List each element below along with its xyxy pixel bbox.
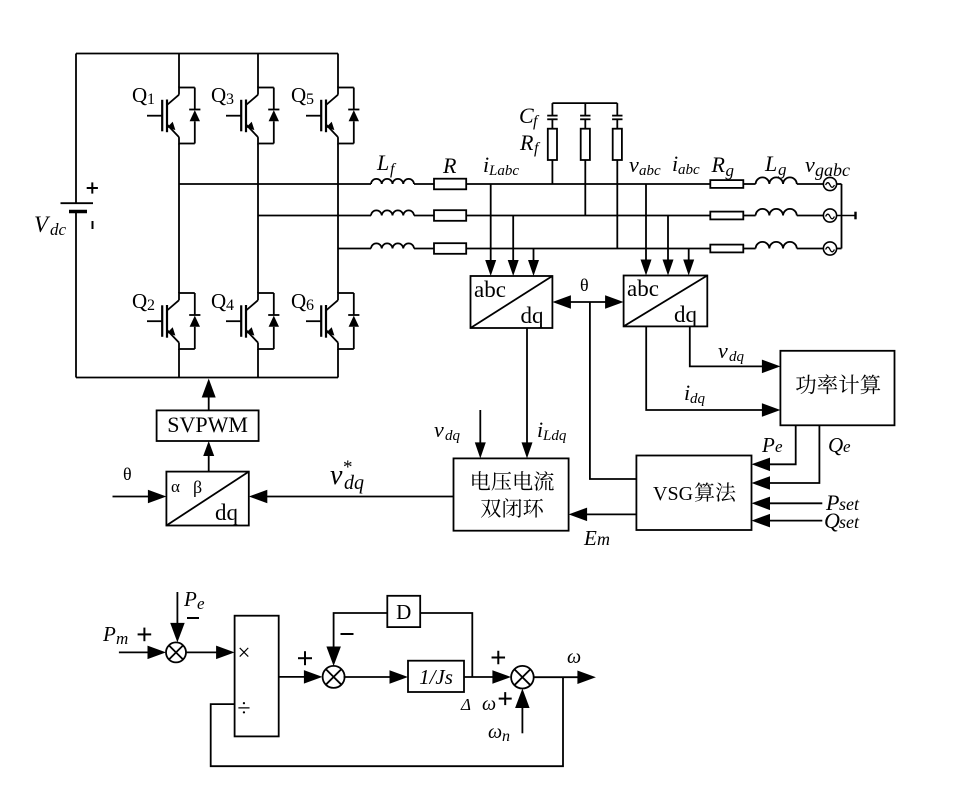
wire S1 to divider: [186, 646, 235, 660]
svg-text:gabc: gabc: [815, 160, 850, 180]
svg-text:R: R: [442, 153, 457, 178]
svg-text:abc: abc: [639, 163, 661, 179]
wire iLdq: [522, 328, 533, 458]
label plus S2: [298, 651, 312, 665]
wire top DC rail: [76, 53, 338, 55]
svg-text:Q: Q: [828, 433, 843, 457]
wire inverter leg 2: [257, 54, 259, 378]
block multiply divide: [235, 616, 279, 737]
svg-text:Q: Q: [291, 289, 306, 313]
label Pset: [825, 490, 860, 515]
block alpha-beta/dq transform U3: [166, 472, 248, 526]
inductor Lg phase B: [756, 209, 797, 216]
svg-text:3: 3: [226, 91, 234, 108]
wire bottom DC rail: [76, 377, 338, 379]
transistor Q3: [226, 87, 279, 145]
svg-text:Δ: Δ: [460, 695, 471, 714]
svg-text:2: 2: [147, 297, 155, 314]
label vdq ref: [330, 457, 364, 494]
wire S2 to 1/Js: [344, 670, 408, 684]
label Q1: [132, 83, 155, 108]
svg-text:n: n: [502, 728, 510, 745]
battery Vdc: [61, 182, 98, 229]
label delta omega plus: [460, 692, 512, 715]
resistor Rg phase C: [710, 245, 743, 253]
inductor Lg phase A: [756, 177, 797, 184]
svg-text:P: P: [761, 433, 775, 457]
wire Qset: [752, 514, 823, 528]
svg-text:Ldq: Ldq: [542, 428, 567, 444]
label R: [442, 153, 457, 178]
svg-text:e: e: [197, 594, 205, 613]
wire phase A: [179, 183, 710, 185]
wire v/i tap b: [663, 216, 674, 276]
wire theta input: [113, 490, 167, 503]
svg-text:R: R: [519, 130, 534, 155]
resistor Rf phase B: [581, 129, 590, 160]
wire Cf top bus: [552, 102, 617, 104]
svg-text:v: v: [629, 152, 639, 177]
svg-text:E: E: [583, 526, 597, 550]
label theta input: [123, 464, 132, 484]
resistor Rf phase C: [613, 129, 622, 160]
svg-text:m: m: [116, 629, 128, 648]
svg-text:ω: ω: [567, 646, 581, 668]
label Qe: [828, 433, 851, 457]
block D: [387, 596, 420, 627]
svg-text:g: g: [726, 161, 735, 180]
resistor Rf phase A: [548, 129, 557, 160]
wire iL tap c: [528, 249, 539, 277]
label plus Pm: [138, 628, 152, 642]
svg-text:4: 4: [226, 297, 234, 314]
transistor Q4: [226, 292, 279, 350]
label omega_n: [488, 721, 510, 745]
svg-text:Q: Q: [824, 508, 840, 533]
svg-text:C: C: [519, 103, 534, 128]
label Q5: [291, 83, 314, 108]
svg-text:D: D: [396, 600, 411, 624]
label omega: [567, 646, 581, 668]
label iabc: [672, 151, 700, 178]
label Lf: [376, 150, 397, 178]
svg-text:Q: Q: [132, 83, 147, 107]
wire Pe input: [170, 592, 185, 642]
svg-text:×: ×: [238, 640, 251, 665]
block abc/dq current transform U1: [471, 276, 553, 328]
resistor Rg phase A: [710, 180, 743, 188]
wire grid neutral bus: [837, 184, 842, 249]
svg-text:abc: abc: [474, 277, 506, 302]
label iLdq: [537, 417, 567, 444]
svg-text:dq: dq: [674, 302, 698, 327]
transistor Q2: [147, 292, 200, 350]
wire theta link: [552, 295, 623, 309]
wire Em: [569, 508, 637, 521]
AC source vg phase A: [823, 177, 836, 190]
label plus S3: [492, 651, 506, 665]
svg-text:SVPWM: SVPWM: [167, 412, 248, 437]
svg-text:α: α: [171, 477, 180, 496]
capacitor Cf phase B: [580, 103, 590, 129]
svg-text:ω: ω: [488, 721, 502, 743]
svg-text:VSG: VSG: [653, 483, 693, 505]
wire iL tap a: [485, 184, 496, 276]
block abc/dq measurement transform U2: [624, 276, 708, 328]
wire Pe: [752, 425, 796, 471]
label Q2: [132, 289, 155, 314]
label vdq: [718, 338, 745, 365]
resistor Rg phase B: [710, 212, 743, 220]
wire divider out: [279, 670, 323, 684]
svg-text:dq: dq: [445, 428, 461, 444]
svg-text:set: set: [839, 512, 860, 532]
label minus D: [341, 633, 354, 635]
grid neutral terminal: [837, 212, 856, 220]
wire vdq to power calc: [690, 326, 781, 373]
capacitor Cf phase C: [612, 103, 622, 129]
svg-text:Q: Q: [291, 83, 306, 107]
wire Cf branch C to phase: [616, 160, 618, 249]
wire v/i tap a: [641, 184, 652, 276]
svg-text:e: e: [775, 437, 783, 456]
label theta: [580, 275, 589, 295]
wire D to S2: [326, 613, 387, 666]
label idq: [684, 380, 706, 407]
svg-text:dq: dq: [690, 391, 706, 407]
svg-text:Q: Q: [211, 83, 226, 107]
label Pm: [102, 622, 128, 648]
svg-text:dq: dq: [521, 303, 545, 328]
svg-text:θ: θ: [580, 275, 589, 295]
label Rg: [711, 152, 735, 180]
svg-text:Labc: Labc: [488, 163, 519, 179]
svg-text:Q: Q: [132, 289, 147, 313]
wire inverter leg 3: [337, 54, 339, 378]
wire ab/dq to SVPWM: [203, 441, 214, 472]
label Pe input: [183, 587, 205, 613]
wire Pset: [752, 497, 823, 511]
label vgabc: [805, 152, 850, 180]
resistor R phase C: [434, 243, 466, 254]
wire phase A grid: [743, 183, 823, 185]
wire Cf branch A to phase: [551, 160, 553, 184]
svg-text:θ: θ: [123, 464, 132, 484]
svg-text:L: L: [376, 150, 389, 175]
wire phase C grid: [743, 248, 823, 250]
wire D input tap: [420, 613, 472, 677]
svg-text:g: g: [778, 160, 787, 179]
wire v/i tap c: [683, 249, 694, 276]
svg-text:v: v: [434, 417, 444, 442]
label Rf: [519, 130, 541, 157]
svg-text:β: β: [193, 477, 202, 497]
label vdq input: [434, 417, 461, 444]
svg-text:L: L: [764, 151, 777, 176]
wire phase B grid: [743, 215, 823, 217]
svg-text:abc: abc: [678, 162, 700, 178]
inductor Lf phase A: [371, 179, 414, 184]
svg-text:Q: Q: [211, 289, 226, 313]
label Q6: [291, 289, 314, 314]
wire vdq input: [475, 410, 486, 458]
wire Qe: [752, 425, 820, 490]
wire iL tap b: [508, 216, 519, 277]
label Lg: [764, 151, 787, 179]
label Cf: [519, 103, 540, 130]
svg-text:5: 5: [306, 91, 314, 108]
label iLabc: [483, 152, 519, 179]
svg-text:dc: dc: [50, 220, 67, 239]
svg-text:P: P: [102, 622, 116, 646]
summing junction S2: [323, 666, 345, 688]
wire SVPWM to bridge: [202, 379, 216, 411]
svg-text:m: m: [597, 529, 610, 549]
label minus Pe: [187, 617, 199, 619]
svg-text:dq: dq: [215, 500, 239, 525]
wire phase C: [338, 248, 710, 250]
svg-text:dq: dq: [344, 472, 364, 494]
wire omega_n input: [515, 689, 530, 734]
inductor Lf phase B: [371, 210, 414, 215]
svg-text:e: e: [843, 437, 851, 456]
wire feedback loop: [211, 677, 563, 766]
summing junction S3: [511, 666, 534, 689]
block VSG algorithm: [636, 456, 751, 531]
label Pe: [761, 433, 783, 457]
wire 1/Js out: [464, 670, 511, 684]
svg-text:R: R: [711, 152, 726, 177]
svg-text:÷: ÷: [237, 696, 250, 722]
block SVPWM: [157, 410, 259, 441]
resistor R phase B: [434, 210, 466, 221]
label Vdc: [34, 212, 67, 239]
inductor Lg phase C: [756, 242, 797, 249]
wire omega output: [533, 671, 596, 685]
wire Cf branch B to phase: [584, 160, 586, 216]
resistor R phase A: [434, 179, 466, 190]
wire vdq ref: [249, 490, 454, 503]
svg-text:1: 1: [147, 91, 155, 108]
inductor Lf phase C: [371, 243, 414, 248]
AC source vg phase C: [823, 242, 836, 255]
svg-text:v: v: [330, 460, 343, 491]
label Em: [583, 526, 610, 550]
svg-text:v: v: [805, 152, 815, 177]
block 1/Js: [408, 661, 464, 692]
svg-text:6: 6: [306, 297, 314, 314]
block voltage current dual loop: [454, 458, 569, 530]
svg-text:ω: ω: [482, 693, 496, 715]
wire phase B: [258, 215, 710, 217]
wire theta to VSG: [590, 302, 637, 479]
AC source vg phase B: [823, 209, 836, 222]
wire Pm input: [119, 646, 166, 660]
wire left DC link: [75, 54, 77, 378]
label Q3: [211, 83, 234, 108]
label Qset: [824, 508, 860, 533]
summing junction S1: [166, 642, 186, 662]
label vabc: [629, 152, 661, 179]
transistor Q5: [306, 87, 359, 145]
svg-text:dq: dq: [729, 349, 745, 365]
block power calculation: [780, 351, 894, 426]
wire idq to power calc: [646, 326, 780, 416]
svg-text:1/Js: 1/Js: [419, 665, 453, 689]
svg-text:v: v: [718, 338, 728, 363]
transistor Q6: [306, 292, 359, 350]
svg-text:set: set: [839, 494, 860, 514]
wire inverter leg 1: [178, 54, 180, 378]
capacitor Cf phase A: [547, 103, 557, 129]
svg-text:abc: abc: [627, 276, 659, 301]
svg-text:P: P: [183, 587, 197, 611]
label Q4: [211, 289, 234, 314]
transistor Q1: [147, 87, 200, 145]
